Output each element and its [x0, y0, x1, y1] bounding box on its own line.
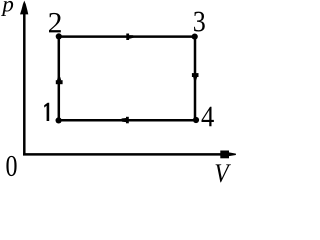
- arrow down on edge 3-4: [192, 73, 199, 81]
- node 2 label: [49, 13, 61, 33]
- node 1 dot: [56, 117, 62, 123]
- arrow up on edge 1-2: [56, 76, 63, 84]
- arrow left on edge 4-1: [120, 117, 129, 124]
- axis label V: [216, 164, 231, 182]
- wire: process 4-1 (bottom edge): [59, 119, 195, 122]
- origin label 0: [6, 156, 16, 176]
- node 3 dot: [192, 34, 198, 40]
- V axis (horizontal): [23, 151, 236, 159]
- axis label p: [1, 1, 13, 16]
- node 4 dot: [193, 117, 199, 123]
- node 1 label: [44, 103, 49, 121]
- node 2 dot: [56, 33, 62, 39]
- p axis (vertical): [20, 1, 28, 156]
- wire: process 1-2 (left edge): [58, 37, 61, 121]
- arrow right on edge 2-3: [126, 34, 135, 41]
- node 3 label: [194, 12, 205, 32]
- wire: process 2-3 (top edge): [59, 35, 195, 38]
- node 4 label: [202, 107, 214, 126]
- wire: process 3-4 (right edge): [194, 37, 197, 121]
